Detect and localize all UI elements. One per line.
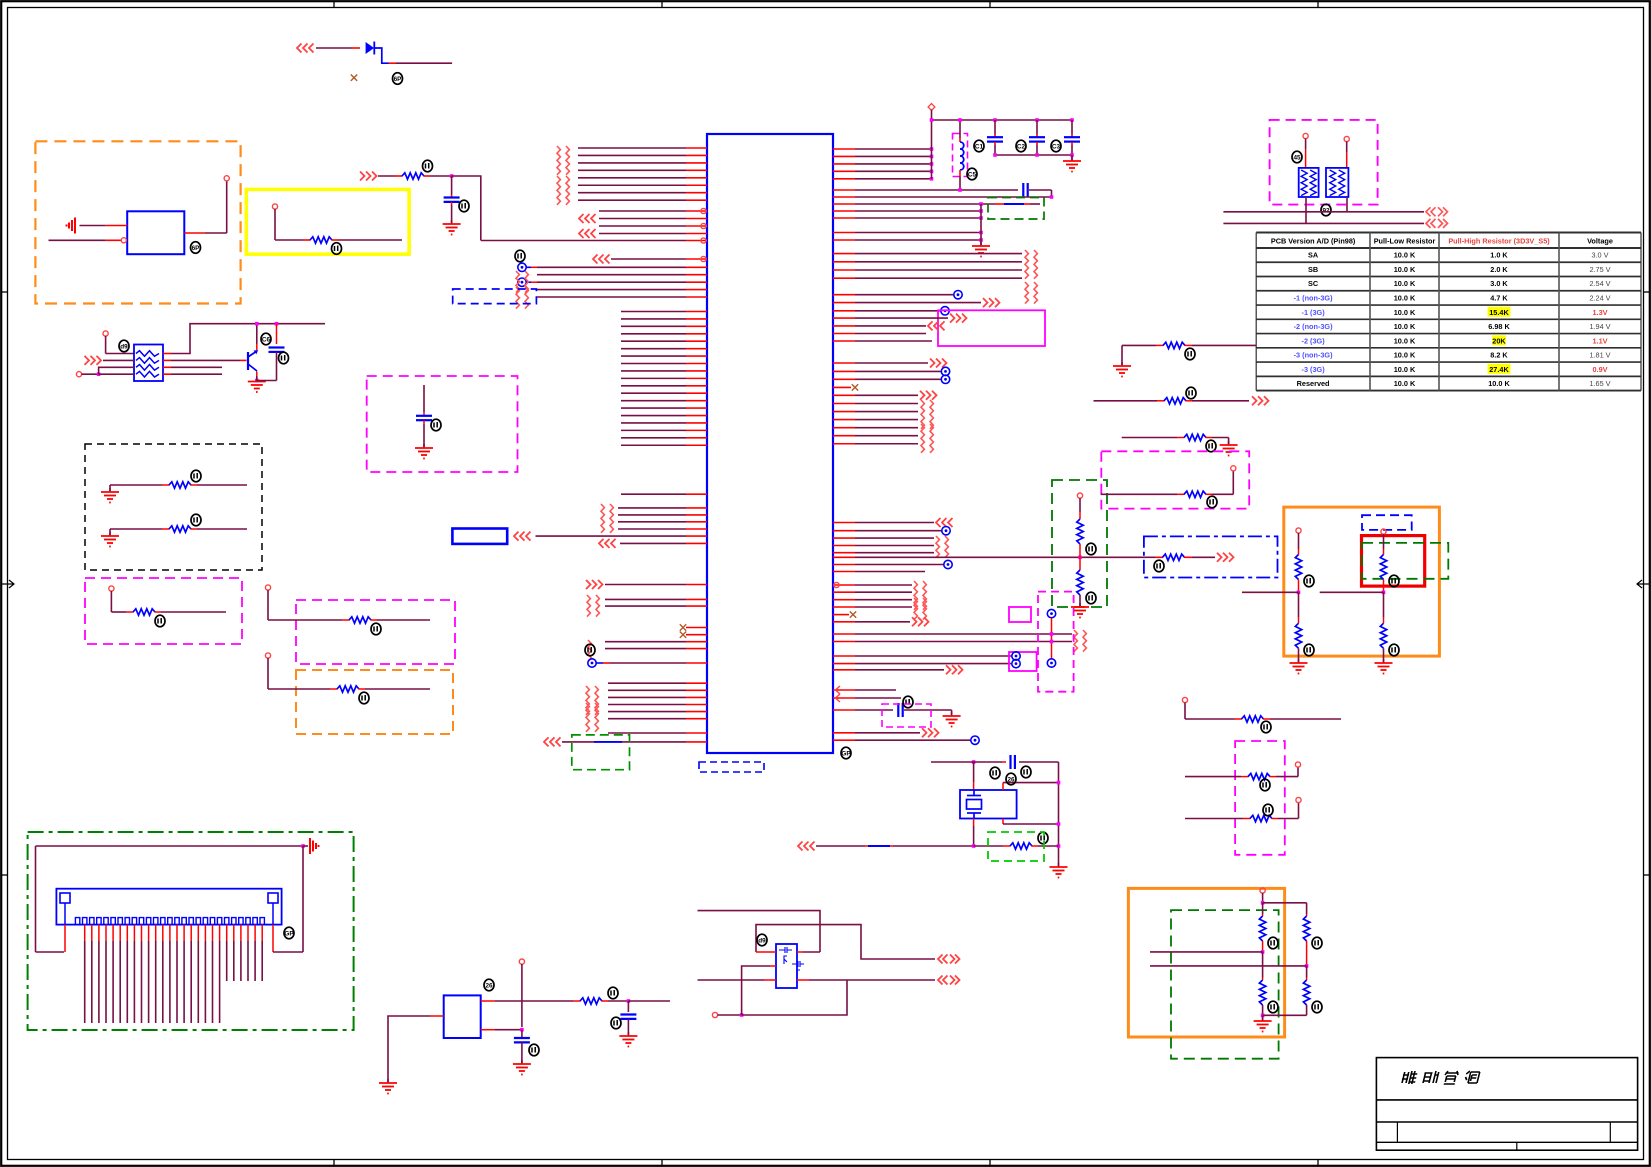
right pin y204 with blue segment <box>833 203 855 205</box>
input arrow <box>579 229 596 238</box>
junction <box>958 188 962 192</box>
svg-text:15.4K: 15.4K <box>1489 308 1509 317</box>
antenna/chassis symbol <box>67 218 76 234</box>
resistor <box>1259 980 1265 1005</box>
resistor <box>1164 398 1186 404</box>
resistor <box>1250 815 1272 821</box>
off-page connector <box>930 400 933 429</box>
svg-text:10.0 K: 10.0 K <box>1394 351 1416 360</box>
designator label <box>191 242 201 254</box>
pin circle <box>1295 762 1300 767</box>
junction <box>1261 950 1265 954</box>
svg-text:C2: C2 <box>1017 143 1026 150</box>
junction <box>1050 195 1054 199</box>
off-page connector <box>525 271 528 293</box>
off-page connector <box>930 424 933 453</box>
off-page arrow right <box>1252 396 1269 405</box>
svg-text:6P: 6P <box>192 245 201 252</box>
junction <box>930 155 934 159</box>
right pin y571 <box>833 571 855 573</box>
resistor <box>1242 716 1264 722</box>
designator label <box>529 1044 539 1056</box>
junction <box>255 322 259 326</box>
resistor R feedback <box>1010 843 1032 849</box>
junction <box>930 147 934 151</box>
ground <box>443 220 461 235</box>
designator label <box>1154 560 1164 572</box>
testpoint <box>942 527 950 535</box>
power bus horizontal <box>932 119 1073 121</box>
testpoint <box>1012 659 1020 667</box>
junction <box>740 1013 744 1017</box>
svg-text:20K: 20K <box>1492 336 1506 345</box>
designator label <box>515 250 525 262</box>
junction <box>301 844 305 848</box>
pin circle <box>834 582 839 587</box>
pin circle <box>224 176 229 181</box>
testpoint <box>971 736 979 744</box>
svg-text:-1 (3G): -1 (3G) <box>1302 308 1326 317</box>
ground <box>1071 603 1089 618</box>
orange module mid-right <box>1284 507 1440 656</box>
off-page connector <box>566 146 569 175</box>
resistor pack RP1 <box>134 345 163 382</box>
off-page arrow right <box>922 728 939 737</box>
pin circle <box>712 1012 717 1017</box>
capacitor <box>514 1038 530 1042</box>
off-page connector <box>586 703 589 732</box>
svg-text:-2 (3G): -2 (3G) <box>1302 336 1326 345</box>
svg-text:d9: d9 <box>758 937 766 944</box>
resistor <box>1295 555 1301 580</box>
ground <box>619 1032 637 1047</box>
right pins y371/379 testpoints <box>833 370 855 372</box>
svg-text:SB: SB <box>1308 265 1318 274</box>
right pins y522-553 <box>833 522 855 524</box>
svg-text:3.0 K: 3.0 K <box>1490 279 1508 288</box>
capacitor <box>1029 137 1045 141</box>
small magenta box <box>1009 607 1031 622</box>
ground Q1 <box>248 378 266 393</box>
designator label <box>1389 575 1399 587</box>
blue dash-dot net box <box>1144 536 1278 577</box>
resistor <box>169 482 191 488</box>
pin circle <box>519 959 524 964</box>
left pin y543 <box>620 542 686 544</box>
off-page connector <box>1034 282 1037 304</box>
pin circle <box>103 331 108 336</box>
junction <box>979 202 983 206</box>
resistor R <box>1163 342 1185 348</box>
top-right magenta module with resistor packs <box>1270 120 1378 205</box>
ground <box>1290 659 1308 674</box>
ground <box>513 1060 531 1075</box>
ground <box>415 444 433 459</box>
svg-text:4.7 K: 4.7 K <box>1490 294 1508 303</box>
right nc stub y615 <box>833 614 849 616</box>
off-page arrow right <box>950 314 967 323</box>
off-page connector <box>586 686 589 715</box>
resistor R40 <box>1163 554 1185 560</box>
right pins y634/642 long <box>833 633 855 635</box>
wire from RC filter into pin y240 <box>481 240 686 242</box>
title block <box>1376 1058 1637 1151</box>
designator GP of U1 <box>841 747 851 759</box>
svg-text:10.0 K: 10.0 K <box>1394 279 1416 288</box>
left pin y494 <box>621 493 686 495</box>
designator label <box>1304 644 1314 656</box>
crystal Y1 box <box>960 790 1017 819</box>
pin circle <box>701 223 706 228</box>
testpoint <box>518 278 526 286</box>
designator label <box>585 644 595 656</box>
svg-text:1.0 K: 1.0 K <box>1490 251 1508 260</box>
designator label <box>1389 644 1399 656</box>
resistor <box>349 617 371 623</box>
testpoint <box>941 375 949 383</box>
right pins y254-278 with wavy <box>833 253 855 255</box>
junction <box>979 238 983 242</box>
svg-text:10.0 K: 10.0 K <box>1394 365 1416 374</box>
ground <box>1375 659 1393 674</box>
junction <box>520 1028 524 1032</box>
designator <box>393 73 403 85</box>
off-page connector <box>601 504 604 533</box>
U1 left long bundle y312-445 <box>621 311 686 313</box>
pin circle <box>265 585 270 590</box>
green dashed divider box (mid) <box>1052 480 1107 607</box>
designator label <box>757 934 767 946</box>
blue dashed tag <box>1362 515 1412 530</box>
right pin y565 testpoint <box>833 564 855 566</box>
decoupling bus vertical <box>931 120 933 179</box>
resistor <box>1259 916 1265 941</box>
designator label <box>1206 440 1216 452</box>
ground <box>1050 863 1068 878</box>
designator label <box>1051 140 1061 152</box>
designator label <box>1185 348 1195 360</box>
designator label <box>1038 832 1048 844</box>
left pins y683-719 <box>608 682 686 684</box>
off-page connector <box>588 640 591 662</box>
designator label <box>423 160 433 172</box>
pin circle <box>1260 888 1265 893</box>
resistor <box>1380 555 1386 580</box>
off-page connector <box>516 271 519 293</box>
pin circle <box>1182 697 1187 702</box>
off-page connector <box>1034 250 1037 279</box>
svg-text:C1: C1 <box>975 143 984 150</box>
svg-text:10.0 K: 10.0 K <box>1394 322 1416 331</box>
ground <box>1063 157 1081 172</box>
off-page connector <box>596 595 599 617</box>
no-connect <box>351 75 357 81</box>
svg-text:3.0 V: 3.0 V <box>1591 251 1608 260</box>
junction <box>1297 591 1301 595</box>
off-page arrow right <box>586 580 603 589</box>
resistor <box>1303 980 1309 1005</box>
orange dashed box (series R) <box>296 670 453 734</box>
magenta dashed box right of IC <box>1038 592 1074 692</box>
off-page connector <box>914 581 917 610</box>
testpoint <box>588 659 596 667</box>
left pins y211-241 <box>599 210 686 212</box>
off-page arrow left <box>544 737 561 746</box>
svg-text:2.54 V: 2.54 V <box>1589 279 1610 288</box>
magenta net box right <box>938 310 1045 346</box>
no-connect <box>850 611 856 617</box>
designator label <box>1021 766 1031 778</box>
company logo text <box>1401 1071 1418 1084</box>
off-page connector <box>595 703 598 732</box>
right rail of crystal <box>1058 762 1060 866</box>
svg-text:45: 45 <box>1293 154 1301 161</box>
designator label <box>1086 592 1096 604</box>
junction <box>958 118 962 122</box>
designator label <box>1261 721 1271 733</box>
junction <box>1035 153 1039 157</box>
pin circle <box>1303 133 1308 138</box>
frame mid-edge arrows <box>2 580 14 588</box>
resistor R divider bottom <box>1077 570 1083 595</box>
IC U1 main body <box>707 134 833 753</box>
orange module bottom-right <box>1128 888 1284 1037</box>
capacitor <box>898 703 902 717</box>
pin circle <box>265 653 270 658</box>
svg-text:Reserved: Reserved <box>1297 379 1330 388</box>
input arrow <box>579 214 596 223</box>
svg-text:10.0 K: 10.0 K <box>1488 379 1510 388</box>
svg-text:1.3V: 1.3V <box>1592 308 1607 317</box>
junction <box>627 999 631 1003</box>
resistor R divider top <box>1077 519 1083 544</box>
off-page connector <box>945 536 948 558</box>
svg-text:GP: GP <box>841 750 851 757</box>
crystal circuit <box>931 761 966 763</box>
junction <box>1305 964 1309 968</box>
junction <box>1261 1014 1265 1018</box>
off-page arrow left <box>928 321 945 330</box>
pin circle <box>1381 529 1386 534</box>
off-page arrow left <box>936 518 953 527</box>
junction <box>930 170 934 174</box>
long wire y557 to resistor box <box>833 556 855 558</box>
testpoint <box>1047 659 1055 667</box>
designator label <box>974 140 984 152</box>
blue box sub-circuit <box>127 211 184 254</box>
capacitor <box>620 1015 636 1019</box>
resistor pack blocks <box>1299 168 1319 197</box>
inductor L1 with magenta box <box>953 134 968 177</box>
ground <box>1220 441 1238 456</box>
svg-text:C3: C3 <box>1052 143 1061 150</box>
resistor <box>1248 773 1270 779</box>
green dashed box bottom-left of IC <box>572 735 630 770</box>
designator label <box>261 333 271 345</box>
diode D1 <box>366 42 374 54</box>
PCB version table <box>1256 232 1641 234</box>
left pins y599/606 <box>605 598 686 600</box>
orange dashed box module top-left <box>35 141 240 303</box>
junction <box>993 118 997 122</box>
svg-text:10.0 K: 10.0 K <box>1394 294 1416 303</box>
level shifter block <box>776 944 797 988</box>
pin circle <box>109 586 114 591</box>
green dashed overlay 2 <box>1171 910 1279 1059</box>
left pin y584 arrow <box>605 584 686 586</box>
power pin diamond <box>928 104 935 111</box>
designator label <box>1292 151 1302 163</box>
green dash-dot connector outline box <box>28 832 354 1030</box>
designator label <box>155 615 165 627</box>
svg-text:6.98 K: 6.98 K <box>1488 322 1510 331</box>
junction <box>979 216 983 220</box>
off-page arrow left <box>297 44 314 53</box>
junction <box>979 209 983 213</box>
junction <box>450 174 454 178</box>
designator label <box>1304 575 1314 587</box>
svg-text:10.0 K: 10.0 K <box>1394 336 1416 345</box>
off-page connector <box>921 400 924 429</box>
divider B column 2 <box>1306 914 1308 916</box>
green dashed overlay <box>1362 543 1448 579</box>
testpoint <box>941 367 949 375</box>
resistor R5 <box>402 173 424 179</box>
capacitor C4 <box>444 198 460 202</box>
junction <box>1057 822 1061 826</box>
right pin y295 testpoint <box>833 294 855 296</box>
junction <box>1057 781 1061 785</box>
no-connect <box>852 384 858 390</box>
ground <box>943 712 961 727</box>
connector top wire to chassis ground <box>36 845 304 847</box>
designator label <box>431 419 441 431</box>
designator label <box>967 168 977 180</box>
right pins y656/664 into connector box <box>833 655 855 657</box>
resistor <box>1303 916 1309 941</box>
capacitor C7 <box>416 416 432 420</box>
ground <box>379 1079 397 1094</box>
right pin y710 RC to ground <box>833 709 855 711</box>
off-page arrow left <box>593 255 610 264</box>
off-page connector <box>923 581 926 610</box>
junction <box>1382 591 1386 595</box>
svg-text:92: 92 <box>1322 207 1330 214</box>
svg-text:SC: SC <box>1308 279 1319 288</box>
right pin y311 testpoint <box>833 310 855 312</box>
long wire from net box y536 <box>536 535 687 537</box>
designator label <box>484 979 494 991</box>
yellow highlight box <box>246 189 409 254</box>
blue dashed bus box <box>453 289 537 304</box>
resistor <box>133 609 155 615</box>
testpoint <box>1012 652 1020 660</box>
svg-text:-2 (non-3G): -2 (non-3G) <box>1294 322 1333 331</box>
right pins y585-607 <box>833 584 855 586</box>
transistor Q1 <box>247 352 249 370</box>
U1 right pins to decoupling bus <box>833 148 855 150</box>
ground <box>101 488 119 503</box>
divider B column 1 <box>1262 903 1264 914</box>
junction <box>1070 118 1074 122</box>
designator label <box>1312 1001 1322 1013</box>
bright green dashed box <box>988 832 1044 861</box>
frame zone ticks left/right <box>1 291 8 293</box>
second arrow pair <box>698 979 765 981</box>
blue net name box <box>452 529 507 544</box>
designator label <box>903 696 913 708</box>
off-page connector <box>516 287 519 309</box>
off-page arrow right <box>983 298 1000 307</box>
resistor <box>1295 623 1301 648</box>
designator label <box>1006 773 1016 785</box>
junction <box>255 379 259 383</box>
off-page arrow right <box>85 356 102 365</box>
pin circle <box>76 372 81 377</box>
svg-text:27.4K: 27.4K <box>1489 365 1509 374</box>
designator label <box>1268 937 1278 949</box>
testpoint <box>954 291 962 299</box>
right pins y211-240 to gnd bus <box>833 210 855 212</box>
magenta dashed box pullup left <box>85 578 242 644</box>
designator label <box>359 692 369 704</box>
svg-text:0.9V: 0.9V <box>1592 365 1607 374</box>
resistor <box>1184 434 1206 440</box>
off-page connector <box>923 598 926 620</box>
right pin y740 testpoint <box>833 739 855 741</box>
designator label <box>608 987 618 999</box>
ground <box>1113 362 1131 377</box>
junction <box>930 177 934 181</box>
pack outputs <box>163 353 171 355</box>
off-page arrow right <box>946 665 963 674</box>
designator label <box>1186 387 1196 399</box>
off-page arrow left <box>798 842 815 851</box>
off-page connector <box>557 146 560 175</box>
junction <box>1078 556 1082 560</box>
svg-text:1.94 V: 1.94 V <box>1589 322 1610 331</box>
designator label <box>1312 937 1322 949</box>
resistor <box>1380 623 1386 648</box>
designator label <box>1207 496 1217 508</box>
svg-text:Pull-High Resistor (3D3V_S5): Pull-High Resistor (3D3V_S5) <box>1448 237 1550 246</box>
junction <box>1057 844 1061 848</box>
off-page arrow right <box>912 617 929 626</box>
svg-text:Pull-Low Resistor: Pull-Low Resistor <box>1374 237 1436 246</box>
svg-text:2.0 K: 2.0 K <box>1490 265 1508 274</box>
svg-text:-3 (3G): -3 (3G) <box>1302 365 1326 374</box>
svg-text:10.0 K: 10.0 K <box>1394 379 1416 388</box>
pin circle <box>121 238 126 243</box>
junction <box>979 231 983 235</box>
capacitor <box>987 137 1003 141</box>
designator label <box>611 1017 621 1029</box>
off-page connector <box>610 504 613 533</box>
no-connect <box>680 624 686 630</box>
off-page arrow left <box>514 532 531 541</box>
designator label <box>279 352 289 364</box>
left pin y733 <box>608 732 686 734</box>
designator label <box>284 927 294 939</box>
junction <box>97 372 101 376</box>
svg-text:C6: C6 <box>262 336 271 343</box>
testpoint <box>941 307 949 315</box>
svg-text:10.0 K: 10.0 K <box>1394 308 1416 317</box>
resistor R in yellow box <box>310 237 332 243</box>
off-page connector <box>936 536 939 558</box>
svg-text:1.65 V: 1.65 V <box>1589 379 1610 388</box>
pin circle <box>701 208 706 213</box>
